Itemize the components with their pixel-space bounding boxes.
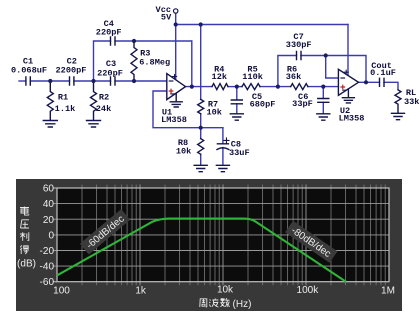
wire C5 to ground [236, 104, 238, 113]
capacitor C6 [318, 99, 329, 103]
wire input stub to C1 [19, 80, 26, 82]
svg-text:10k: 10k [176, 147, 191, 157]
label -60dB/dec rising slope [80, 209, 130, 254]
svg-text:33k: 33k [404, 97, 419, 107]
ground RL [392, 113, 405, 119]
svg-text:20: 20 [43, 215, 55, 226]
svg-text:0.068uF: 0.068uF [11, 66, 47, 76]
op-amp U2 [338, 69, 358, 95]
ground C8 [216, 165, 229, 171]
svg-text:10k: 10k [217, 285, 234, 296]
op-amp U1 [167, 74, 186, 100]
capacitor C4 [111, 37, 116, 45]
capacitor C8 electrolytic [217, 138, 229, 150]
svg-text:6.8Meg: 6.8Meg [139, 58, 170, 68]
resistor R8 [198, 139, 204, 155]
node C6 junction [321, 85, 325, 89]
plot border [57, 188, 389, 282]
wire C6 node down [322, 87, 324, 99]
minor log gridlines [82, 185, 385, 286]
svg-text:0.1uF: 0.1uF [370, 68, 396, 78]
svg-text:220pF: 220pF [96, 27, 122, 37]
node R7/R8 bias junction [199, 126, 203, 130]
svg-text:-20: -20 [40, 246, 55, 257]
node R3 top junction [132, 39, 136, 43]
svg-text:110k: 110k [242, 72, 263, 82]
x axis title 数 [220, 298, 229, 307]
node Vcc rail U1 [174, 22, 178, 26]
svg-text:330pF: 330pF [286, 40, 312, 50]
svg-text:220pF: 220pF [97, 68, 123, 78]
svg-text:10k: 10k [206, 107, 221, 117]
wire Vcc drop to U2 power [347, 25, 349, 76]
node U1 output [190, 85, 194, 89]
wire R8 to ground [200, 154, 202, 164]
wire C7 to feedback node [301, 55, 326, 57]
svg-text:LM358: LM358 [339, 114, 365, 124]
wire R6 to U2 noninverting input [308, 86, 339, 88]
resistor R4 [212, 84, 228, 90]
node Vcc rail R7 [199, 22, 203, 26]
resistor R7 [198, 99, 204, 113]
wire R5 to R6 [260, 86, 291, 88]
y axis title 得 [20, 245, 29, 254]
ground R1 [43, 121, 57, 128]
wire R8 top lead [200, 114, 202, 139]
decade gridlines [140, 185, 306, 286]
svg-text:1.1k: 1.1k [55, 104, 76, 114]
curve gain response [57, 219, 346, 282]
x axis labels [53, 285, 395, 297]
x axis title 周 [200, 299, 207, 307]
wire U1 output to R4 [186, 86, 213, 88]
axis ticks [54, 188, 58, 282]
ground U1 [170, 94, 182, 107]
capacitor C2 [70, 77, 74, 85]
y axis title 利 [20, 232, 29, 241]
svg-text:24k: 24k [96, 104, 111, 114]
wire Cout to RL [384, 82, 398, 90]
wire R4 to R5 [228, 86, 242, 88]
resistor R3 [131, 41, 137, 81]
resistor R5 [242, 84, 260, 90]
wire feedback node to U2 output [326, 56, 366, 83]
wire C2/C3 node up to C4 branch [94, 41, 111, 81]
Vcc terminal [174, 9, 178, 13]
svg-text:40: 40 [43, 199, 55, 210]
wire U2 output to Cout [359, 81, 380, 83]
svg-text:R2: R2 [99, 93, 109, 103]
y axis title 圧 [21, 220, 30, 228]
horizontal gridlines 20dB steps [54, 204, 390, 267]
chart panel background [16, 179, 402, 311]
node C7/feedback junction [324, 53, 328, 57]
resistor R2 [91, 81, 97, 120]
wire feedback node down to U2 inverting input [326, 56, 339, 79]
node R3 bottom junction [132, 79, 136, 83]
capacitor C5 [231, 100, 242, 104]
x axis title 波 [209, 298, 218, 307]
svg-text:LM358: LM358 [161, 115, 187, 125]
wire Vcc terminal to rail [175, 13, 177, 24]
y axis title 電 [20, 207, 29, 216]
plot area background [57, 188, 389, 282]
svg-text:(Hz): (Hz) [233, 299, 252, 310]
wire C1 to C2 [30, 80, 69, 82]
svg-text:C3: C3 [106, 59, 116, 69]
label -60dB/dec falling slope [285, 221, 337, 263]
svg-text:0: 0 [48, 230, 54, 241]
svg-text:33uF: 33uF [229, 148, 250, 158]
svg-text:33pF: 33pF [292, 99, 313, 109]
wire U1 noninv input to bias node [153, 91, 223, 128]
node U2 output [364, 80, 368, 84]
svg-text:680pF: 680pF [250, 99, 276, 109]
wire C4 to feedback corner [115, 40, 192, 42]
capacitor Cout [380, 78, 385, 86]
svg-text:1k: 1k [135, 286, 147, 297]
svg-text:R1: R1 [58, 93, 68, 103]
svg-text:1M: 1M [381, 286, 395, 297]
node C5 junction [235, 85, 239, 89]
resistor RL [395, 90, 401, 113]
svg-text:100: 100 [53, 286, 70, 297]
capacitor C7 [297, 52, 302, 60]
wire Vcc drop to R7 [200, 25, 202, 100]
svg-text:(dB): (dB) [17, 258, 36, 269]
svg-text:12k: 12k [212, 72, 227, 82]
svg-text:5V: 5V [161, 13, 172, 23]
svg-text:2200pF: 2200pF [56, 66, 87, 76]
node R2/C4 junction [91, 79, 95, 83]
wire C5 node down [236, 87, 238, 100]
resistor R6 [291, 84, 308, 90]
wire C6 to ground [322, 102, 324, 113]
node C7 riser junction [276, 85, 280, 89]
ground R8 [194, 165, 207, 171]
wire bias node down to C8 [222, 128, 224, 144]
capacitor C3 [111, 77, 116, 85]
wire Vcc drop to U1 power [175, 25, 177, 80]
wire C3 to U1 inverting input [115, 80, 167, 82]
svg-text:60: 60 [43, 184, 55, 195]
resistor R1 [47, 81, 53, 120]
svg-text:36k: 36k [286, 72, 301, 82]
wire C7 branch riser [278, 56, 297, 87]
svg-text:100k: 100k [297, 285, 320, 296]
ground C6 [317, 114, 330, 120]
wire Vcc rail [176, 24, 348, 26]
capacitor C1 [26, 77, 30, 85]
wire C8 to ground [222, 148, 224, 165]
wire feedback vertical to U1 output node [191, 41, 193, 87]
node R1 junction [48, 79, 52, 83]
wire C2 to C3 [74, 80, 111, 82]
ground C5 [230, 114, 243, 120]
y axis labels [40, 184, 55, 289]
ground U2 [342, 89, 354, 103]
svg-text:-40: -40 [40, 262, 55, 273]
ground R2 [87, 121, 101, 128]
